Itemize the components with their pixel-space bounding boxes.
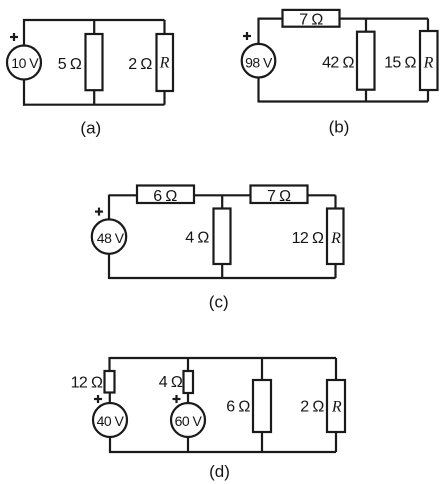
svg-text:12 Ω: 12 Ω [71,374,103,391]
svg-text:42 Ω: 42 Ω [322,54,354,71]
svg-text:4 Ω: 4 Ω [185,230,209,247]
svg-text:15 Ω: 15 Ω [384,54,416,71]
svg-text:R: R [330,230,341,247]
svg-text:(d): (d) [209,462,230,481]
svg-text:2 Ω: 2 Ω [128,56,152,73]
svg-text:7 Ω: 7 Ω [299,12,323,29]
svg-text:(c): (c) [209,293,229,312]
svg-text:4 Ω: 4 Ω [159,374,183,391]
svg-text:6 Ω: 6 Ω [226,399,250,416]
svg-text:(a): (a) [80,119,101,138]
svg-text:60 V: 60 V [175,413,203,429]
svg-text:(b): (b) [329,118,350,137]
svg-text:40 V: 40 V [97,413,125,429]
svg-text:R: R [331,398,342,415]
svg-text:12 Ω: 12 Ω [292,230,324,247]
svg-text:2 Ω: 2 Ω [300,399,324,416]
svg-text:7 Ω: 7 Ω [267,188,291,205]
svg-text:6 Ω: 6 Ω [153,188,177,205]
svg-text:10 V: 10 V [11,55,39,71]
svg-text:R: R [423,54,434,71]
svg-text:R: R [159,54,170,71]
svg-text:5 Ω: 5 Ω [58,56,82,73]
svg-text:48 V: 48 V [97,230,125,246]
svg-text:98 V: 98 V [245,54,273,70]
